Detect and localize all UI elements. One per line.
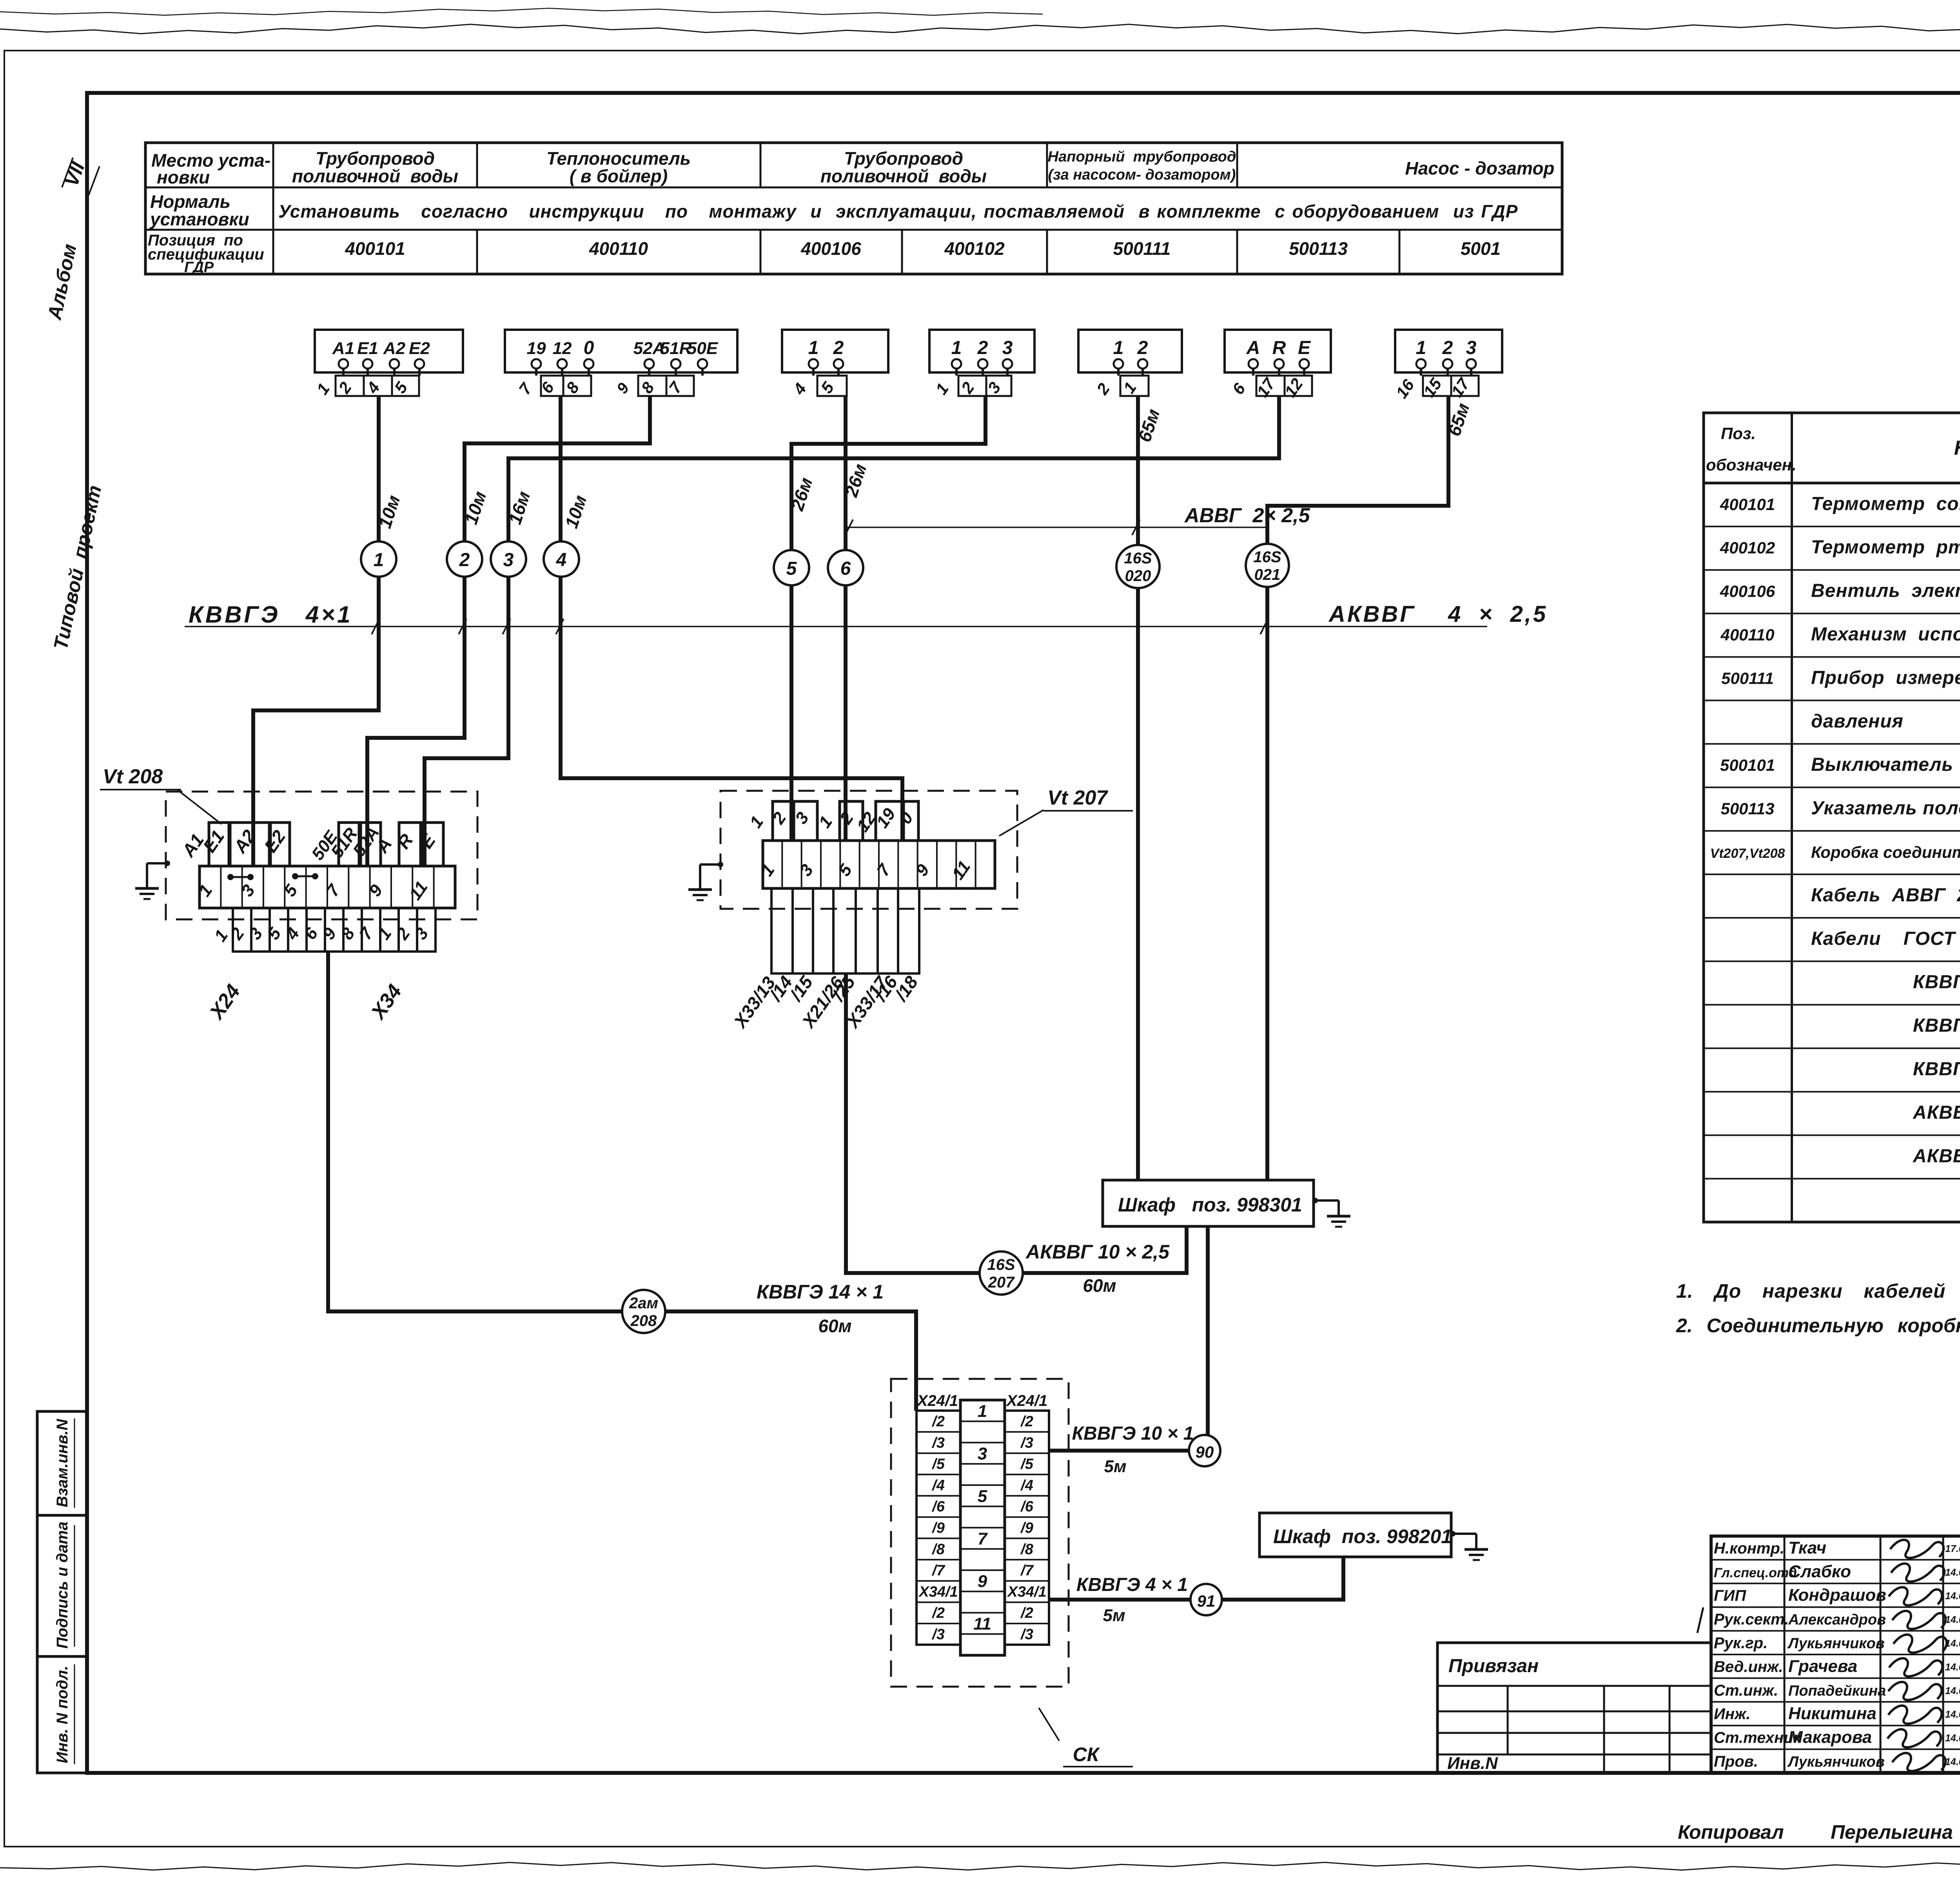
svg-text:Попадейкина: Попадейкина	[1788, 1683, 1886, 1699]
svg-text:Vt 207: Vt 207	[1047, 786, 1108, 809]
svg-text:обозначен.: обозначен.	[1706, 456, 1797, 474]
wire Vt207 to cabinet 998301 (AKVVG 10x2.5)	[846, 973, 1187, 1273]
svg-text:5: 5	[978, 1487, 987, 1506]
cable marker circle 2	[447, 541, 482, 577]
svg-text:400110: 400110	[1720, 625, 1774, 644]
Vt207 top terminal rects	[773, 801, 794, 841]
terminals of TB5 1 2	[1114, 359, 1123, 369]
margin boxes bottom left	[37, 1411, 87, 1773]
svg-text:020: 020	[1125, 567, 1151, 585]
svg-text:5м: 5м	[1104, 1457, 1126, 1476]
svg-text:АКВВГ 10 × 2,5: АКВВГ 10 × 2,5	[1025, 1241, 1170, 1263]
svg-text:Н.контр.: Н.контр.	[1714, 1540, 1784, 1557]
svg-text:/2: /2	[1020, 1413, 1033, 1430]
svg-text:КВВГЭ 10 × 1: КВВГЭ 10 × 1	[1072, 1423, 1194, 1444]
wire markers of TB3 1 2	[817, 376, 847, 396]
svg-text:500111: 500111	[1113, 238, 1171, 259]
scan wavy line top	[0, 24, 1960, 34]
svg-text:/2: /2	[931, 1413, 945, 1430]
svg-text:Указатель положения (насоса -: Указатель положения (насоса - дозатора)	[1811, 798, 1960, 819]
cable marker circle 91	[1191, 1584, 1222, 1615]
svg-text:5м: 5м	[1103, 1606, 1125, 1625]
title block signature rows	[1711, 1559, 1960, 1560]
svg-text:Александров: Александров	[1788, 1612, 1886, 1628]
svg-text:/6: /6	[1020, 1498, 1034, 1515]
svg-text:14.01.86: 14.01.86	[1945, 1662, 1960, 1673]
svg-text:Макарова: Макарова	[1788, 1728, 1872, 1747]
svg-text:Выключатель конечный: Выключатель конечный	[1811, 754, 1960, 775]
terminal box TB2 19 12 0 52A 51R 50E	[505, 330, 737, 372]
wire Vt208 to CK (KVVGE 14x1)	[328, 952, 916, 1411]
ground symbol Vt208	[165, 861, 170, 866]
svg-text:2. Соединительную коробку С: 2. Соединительную коробку СК установить …	[1676, 1315, 1960, 1337]
svg-text:Лукьянчиков: Лукьянчиков	[1787, 1635, 1885, 1652]
svg-text:Шкаф поз. 998201: Шкаф поз. 998201	[1273, 1526, 1452, 1547]
svg-text:2: 2	[459, 550, 470, 570]
wire markers of TB6 A R E	[1256, 376, 1285, 396]
svg-text:поливочной воды: поливочной воды	[820, 166, 987, 186]
svg-text:17.01.86: 17.01.86	[1945, 1543, 1960, 1554]
svg-text:Наименование: Наименование	[1954, 437, 1960, 459]
svg-text:/3: /3	[1020, 1626, 1033, 1643]
wire CK to circle 91 to cabinet 998201 (KVVGE 4x1)	[1049, 1598, 1191, 1602]
svg-text:Вентиль электромагнитный: Вентиль электромагнитный	[1811, 581, 1960, 601]
svg-text:16S: 16S	[987, 1256, 1015, 1273]
svg-text:500113: 500113	[1289, 238, 1348, 259]
cable marker circle 3	[491, 541, 526, 577]
svg-text:КВВГЭ 4×1: КВВГЭ 4×1	[189, 601, 353, 628]
Vt208 jumper terminals 5-6	[292, 873, 298, 879]
svg-text:400102: 400102	[1720, 539, 1775, 557]
svg-text:/4: /4	[1020, 1477, 1033, 1494]
svg-text:90: 90	[1196, 1443, 1214, 1461]
svg-text:АВВГ 2× 2,5: АВВГ 2× 2,5	[1184, 504, 1310, 527]
svg-text:3: 3	[978, 1444, 987, 1464]
terminal box TB7 1 2 3	[1395, 330, 1502, 372]
svg-text:Инв.N: Инв.N	[1447, 1754, 1498, 1773]
svg-text:A: A	[1246, 338, 1260, 358]
wire cable 6 (TB3 to Vt207)	[844, 396, 848, 841]
svg-text:/4: /4	[931, 1477, 945, 1494]
svg-text:Коробка соединительная КСК-16: Коробка соединительная КСК-16 ТУ36.17.53…	[1811, 843, 1960, 861]
svg-text:X34/1: X34/1	[918, 1584, 958, 1600]
svg-text:400101: 400101	[345, 238, 405, 259]
CK right terminal column	[1005, 1411, 1049, 1645]
svg-text:ГДР: ГДР	[184, 259, 214, 276]
svg-text:4: 4	[556, 550, 567, 570]
junction box Vt207 outline (dashed)	[720, 791, 1017, 909]
cable marker circle 16S 021	[1246, 544, 1289, 587]
svg-text:Насос - дозатор: Насос - дозатор	[1405, 158, 1554, 178]
svg-text:1: 1	[951, 338, 962, 358]
ground symbol cabinet 998201	[1450, 1531, 1455, 1536]
svg-text:Термометр сопротивления: Термометр сопротивления	[1811, 494, 1960, 514]
installation table column lines	[272, 143, 274, 274]
wire markers of TB5 1 2	[1120, 376, 1149, 396]
svg-text:19: 19	[527, 339, 546, 358]
svg-text:Никитина: Никитина	[1788, 1704, 1877, 1723]
svg-text:/5: /5	[931, 1456, 945, 1473]
svg-text:5001: 5001	[1461, 238, 1501, 259]
svg-text:50E: 50E	[687, 339, 719, 358]
svg-text:Пров.: Пров.	[1714, 1753, 1758, 1770]
terminals of TB4 1 2 3	[952, 359, 961, 369]
cable marker circle 1	[361, 541, 396, 577]
junction box CK (dashed)	[891, 1379, 1069, 1687]
svg-text:5: 5	[786, 558, 797, 579]
svg-text:3: 3	[503, 550, 514, 570]
svg-text:Подпись и дата: Подпись и дата	[54, 1522, 71, 1649]
svg-text:/3: /3	[931, 1626, 945, 1643]
junction box Vt208 outline (dashed)	[166, 792, 477, 919]
wire cable 3 (TB6 R to Vt208)	[425, 396, 1279, 866]
svg-text:Кондрашов: Кондрашов	[1788, 1585, 1886, 1605]
terminals of TB7 1 2 3	[1416, 359, 1426, 369]
wire cable 021 (TB7 to cabinet 998301)	[1267, 396, 1448, 1180]
svg-text:КВВГЭ 14×1: КВВГЭ 14×1	[1913, 1059, 1960, 1079]
svg-text:Лукьянчиков: Лукьянчиков	[1787, 1754, 1885, 1770]
ground symbol cabinet 998301	[1312, 1198, 1318, 1203]
svg-text:1: 1	[808, 338, 819, 358]
svg-text:14.01.86: 14.01.86	[1945, 1567, 1960, 1578]
svg-text:2: 2	[977, 338, 988, 358]
svg-text:Грачева: Грачева	[1788, 1656, 1857, 1676]
svg-text:Механизм исполнительный: Механизм исполнительный	[1811, 624, 1960, 645]
svg-text:500101: 500101	[1720, 756, 1775, 774]
ground symbol Vt207	[718, 862, 723, 867]
CK left terminal column	[916, 1411, 960, 1645]
svg-text:КВВГЭ 4×1: КВВГЭ 4×1	[1913, 972, 1960, 993]
svg-text:E1: E1	[357, 339, 378, 358]
svg-text:(за насосом- дозатором): (за насосом- дозатором)	[1048, 167, 1236, 183]
svg-text:60м: 60м	[818, 1316, 851, 1336]
wire markers of TB7 1 2 3	[1423, 376, 1451, 396]
svg-text:Привязан: Привязан	[1448, 1656, 1539, 1676]
cable callout line AVVG 2x2.5	[847, 527, 1266, 528]
svg-text:A1: A1	[332, 339, 354, 358]
svg-text:Шкаф поз. 998301: Шкаф поз. 998301	[1118, 1194, 1302, 1216]
svg-text:7: 7	[978, 1529, 988, 1549]
title block signatures (squiggles)	[1890, 1540, 1944, 1558]
cabinet Шкаф поз.998301	[1103, 1180, 1314, 1226]
svg-text:/9: /9	[931, 1520, 945, 1536]
svg-text:/3: /3	[1020, 1435, 1033, 1451]
terminals of TB6 A R E	[1249, 359, 1258, 369]
svg-text:/7: /7	[1020, 1562, 1034, 1579]
CK centre strip	[960, 1400, 1005, 1655]
svg-text:новки: новки	[157, 167, 210, 187]
svg-text:давления: давления	[1811, 711, 1904, 732]
svg-text:E2: E2	[409, 339, 430, 358]
svg-text:E: E	[1298, 338, 1311, 358]
terminal box TB3 1 2	[782, 330, 888, 372]
terminals of TB2 19 12 0 52A 51R 50E	[532, 359, 541, 369]
Vt208 top terminal rects	[209, 823, 229, 866]
svg-text:14.01.86: 14.01.86	[1945, 1756, 1960, 1767]
svg-text:91: 91	[1197, 1592, 1216, 1610]
svg-text:14.01.86: 14.01.86	[1945, 1709, 1960, 1720]
svg-text:Напорный трубопровод: Напорный трубопровод	[1048, 149, 1236, 165]
svg-text:КВВГЭ 10×1: КВВГЭ 10×1	[1913, 1015, 1960, 1036]
svg-text:208: 208	[630, 1312, 657, 1329]
svg-text:11: 11	[973, 1615, 991, 1634]
svg-text:Vt207,Vt208: Vt207,Vt208	[1710, 846, 1785, 861]
svg-text:0: 0	[584, 338, 594, 358]
wire cabinet 998301 to circle 90	[1206, 1226, 1210, 1451]
svg-text:/3: /3	[931, 1435, 945, 1451]
cable marker circle 90	[1189, 1435, 1220, 1466]
svg-text:14.01.86: 14.01.86	[1945, 1685, 1960, 1696]
svg-text:АКВВГ 10×2,5: АКВВГ 10×2,5	[1913, 1146, 1960, 1166]
svg-text:16S: 16S	[1124, 550, 1152, 567]
svg-text:14.01.86: 14.01.86	[1945, 1591, 1960, 1602]
svg-text:( в бойлер): ( в бойлер)	[570, 166, 668, 186]
svg-text:Рук.сект.: Рук.сект.	[1714, 1611, 1789, 1628]
svg-text:Копировал Перелыгина: Копировал Перелыгина	[1678, 1821, 1953, 1843]
svg-text:400110: 400110	[589, 238, 648, 259]
svg-text:400106: 400106	[800, 238, 861, 259]
wire cable 5 (TB4 to Vt207)	[791, 396, 985, 841]
scan wavy line bottom	[0, 1862, 1960, 1870]
svg-text:Установить согласно инстру: Установить согласно инструкции по монтаж…	[278, 201, 1518, 222]
svg-text:60м: 60м	[1083, 1275, 1116, 1296]
svg-text:АКВВГ 4× 2,5: АКВВГ 4× 2,5	[1913, 1102, 1960, 1123]
cabinet Шкаф поз.998201	[1259, 1513, 1451, 1557]
wire markers of TB4 1 2 3	[958, 376, 986, 396]
svg-text:/8: /8	[931, 1541, 945, 1558]
svg-text:500111: 500111	[1721, 669, 1774, 687]
svg-text:поливочной воды: поливочной воды	[292, 166, 458, 186]
svg-text:14.01.86: 14.01.86	[1945, 1733, 1960, 1744]
wire CK to circle 90 (KVVGE 10x1)	[1049, 1449, 1189, 1453]
svg-text:Взам.инв.N: Взам.инв.N	[54, 1418, 71, 1507]
svg-text:/2: /2	[1020, 1605, 1033, 1622]
scan wavy line top secondary	[0, 8, 1043, 15]
svg-text:1: 1	[1416, 338, 1426, 358]
svg-text:6: 6	[840, 558, 851, 579]
svg-text:Vt 208: Vt 208	[103, 765, 163, 788]
terminal box TB5 1 2	[1078, 330, 1182, 372]
mark 1 near Рук.сект	[1697, 1607, 1703, 1633]
svg-text:2: 2	[1137, 338, 1148, 358]
svg-text:1: 1	[1113, 338, 1124, 358]
svg-text:2: 2	[833, 338, 844, 358]
terminals of TB3 1 2	[809, 359, 818, 369]
wire markers of TB1 A1 E1 A2 E2	[336, 376, 364, 396]
wire cable 1 (TB1 to Vt208)	[253, 396, 379, 866]
main title block frame	[1711, 1536, 1960, 1773]
label CK with leader	[1039, 1708, 1059, 1741]
wire cable 2 (TB2 52A group to Vt208)	[367, 396, 650, 866]
svg-text:400102: 400102	[944, 238, 1005, 259]
svg-text:X24/1: X24/1	[916, 1392, 958, 1409]
installation table frame	[145, 143, 1562, 274]
svg-text:установки: установки	[149, 209, 249, 229]
cable marker circle 6	[828, 550, 863, 585]
Vt208 bottom terminal rects	[233, 908, 251, 952]
svg-text:2: 2	[1442, 338, 1453, 358]
svg-text:АКВВГ 4 × 2,5: АКВВГ 4 × 2,5	[1328, 601, 1548, 627]
svg-text:Инв. N подл.: Инв. N подл.	[54, 1666, 71, 1763]
svg-text:Ст.инж.: Ст.инж.	[1714, 1682, 1778, 1699]
wire markers of TB2 19 12 0 52A 51R 50E	[541, 376, 563, 396]
svg-text:400101: 400101	[1720, 495, 1775, 514]
svg-text:Кабель АВВГ 2×2,5- 0.66 ГОСТ: Кабель АВВГ 2×2,5- 0.66 ГОСТ 16442-80	[1811, 885, 1960, 906]
terminal box TB1 A1 E1 A2 E2	[315, 330, 463, 372]
svg-text:Прибор измерения избыточного: Прибор измерения избыточного	[1811, 667, 1960, 688]
svg-text:ГИП: ГИП	[1714, 1587, 1746, 1604]
svg-text:КВВГЭ 14 × 1: КВВГЭ 14 × 1	[757, 1281, 884, 1303]
terminal box TB6 A R E	[1225, 330, 1331, 372]
svg-text:Кабели ГОСТ 1508-78: Кабели ГОСТ 1508-78	[1811, 928, 1960, 949]
cable marker circle 5	[774, 550, 809, 585]
cable callout line KVVGE 4x1 / AKVVG 4x2.5	[185, 626, 1487, 627]
sheet number band line	[4, 50, 1960, 51]
Vt207 terminal strip	[763, 841, 995, 888]
svg-text:207: 207	[988, 1274, 1015, 1291]
svg-text:9: 9	[978, 1572, 987, 1591]
specification table row lines	[1704, 526, 1960, 527]
svg-text:/2: /2	[931, 1605, 945, 1622]
wire cable 020 (TB5 to cabinet 998301)	[1136, 396, 1140, 1180]
svg-text:КВВГЭ 4 × 1: КВВГЭ 4 × 1	[1076, 1575, 1188, 1595]
wire cable 4 (TB2 19-12 group to Vt207)	[561, 396, 902, 841]
svg-text:СК: СК	[1073, 1743, 1100, 1765]
svg-text:/6: /6	[931, 1498, 945, 1515]
cable marker circle 4	[544, 541, 579, 577]
svg-text:Ткач: Ткач	[1788, 1538, 1826, 1557]
svg-text:1: 1	[374, 550, 384, 570]
svg-text:3: 3	[1466, 338, 1477, 358]
svg-text:Инж.: Инж.	[1714, 1705, 1751, 1723]
cable marker circle 16S 207	[980, 1251, 1023, 1295]
terminal box TB4 1 2 3	[929, 330, 1034, 372]
svg-text:Поз.: Поз.	[1721, 424, 1756, 443]
svg-text:Термометр ртутный пружинный: Термометр ртутный пружинный	[1811, 537, 1960, 558]
svg-text:Вед.инж.: Вед.инж.	[1714, 1658, 1783, 1675]
svg-text:Слабко: Слабко	[1788, 1562, 1851, 1581]
svg-text:16S: 16S	[1253, 548, 1281, 566]
svg-text:3: 3	[1002, 338, 1013, 358]
cable marker circle 16S 020	[1116, 545, 1160, 588]
specification table frame	[1704, 413, 1960, 1222]
Vt207 bottom terminal rects	[771, 888, 793, 973]
small table Привязан	[1437, 1643, 1711, 1773]
svg-text:2ам: 2ам	[629, 1295, 658, 1312]
svg-text:X34/1: X34/1	[1007, 1584, 1046, 1600]
svg-text:/8: /8	[1020, 1541, 1034, 1558]
svg-text:1. До нарезки кабелей дли: 1. До нарезки кабелей длины трасс уточни…	[1676, 1280, 1960, 1302]
terminals of TB1 A1 E1 A2 E2	[339, 359, 348, 369]
svg-text:/9: /9	[1020, 1520, 1033, 1536]
svg-text:Рук.гр.: Рук.гр.	[1714, 1634, 1768, 1652]
svg-text:12: 12	[553, 339, 572, 358]
svg-text:R: R	[1272, 338, 1286, 358]
svg-text:14.01.86: 14.01.86	[1945, 1615, 1960, 1625]
cable marker circle 2am 208	[622, 1290, 665, 1333]
svg-text:Гл.спец.отд: Гл.спец.отд	[1714, 1565, 1797, 1580]
svg-text:400106: 400106	[1720, 582, 1775, 601]
Vt208 terminal strip	[200, 866, 455, 908]
svg-text:/5: /5	[1020, 1456, 1034, 1473]
svg-text:A2: A2	[383, 339, 406, 358]
svg-text:021: 021	[1254, 566, 1281, 583]
svg-text:500113: 500113	[1720, 799, 1774, 818]
svg-text:/7: /7	[931, 1562, 946, 1579]
svg-text:1: 1	[978, 1402, 987, 1421]
Vt208 jumper terminals 2-3	[227, 874, 234, 880]
svg-text:X24/1: X24/1	[1006, 1392, 1048, 1409]
